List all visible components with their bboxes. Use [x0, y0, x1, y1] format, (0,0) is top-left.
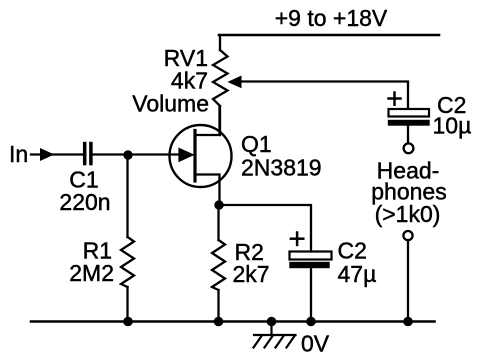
wire R2 to ground rail	[217, 290, 219, 322]
wire R1 to ground rail	[126, 287, 128, 322]
junction source node	[215, 201, 223, 209]
wire RV1 wiper to C2	[239, 82, 408, 109]
svg-text:2N3819: 2N3819	[241, 155, 322, 181]
svg-text:C2: C2	[338, 238, 367, 264]
svg-text:(>1k0): (>1k0)	[375, 201, 441, 227]
wire supply rail	[219, 34, 439, 37]
wire headphone to ground rail	[407, 241, 409, 322]
wire C2 47u to ground rail	[310, 267, 312, 322]
svg-text:2M2: 2M2	[69, 260, 114, 286]
svg-text:10µ: 10µ	[433, 113, 472, 139]
svg-text:Volume: Volume	[132, 91, 209, 117]
transistor Q1	[170, 107, 232, 205]
capacitor C2 10u	[389, 93, 430, 143]
junction headphone to rail	[404, 317, 413, 326]
capacitor C2 47u	[290, 233, 332, 268]
terminal headphone positive	[404, 143, 414, 153]
terminal headphone negative	[403, 231, 412, 240]
potentiometer RV1	[213, 50, 241, 135]
svg-text:Q1: Q1	[241, 131, 272, 157]
wire ground rail	[31, 320, 435, 323]
capacitor C1	[85, 142, 91, 166]
junction C2 47u to rail	[307, 317, 316, 326]
wire source node to R2	[217, 205, 219, 240]
resistor R1	[121, 237, 134, 287]
resistor R2	[212, 240, 225, 290]
svg-text:+9 to +18V: +9 to +18V	[275, 5, 388, 31]
arrow input signal	[41, 149, 54, 160]
junction R1 to rail	[124, 317, 133, 326]
wire input	[31, 153, 82, 155]
wire C1 to gate	[93, 153, 180, 155]
wire source node to C2 47u	[219, 205, 311, 252]
wire gate node to R1	[126, 155, 128, 237]
svg-text:47µ: 47µ	[338, 261, 377, 287]
svg-text:220n: 220n	[59, 189, 110, 215]
junction ground stub	[267, 317, 276, 326]
wire supply rail to RV1 top	[219, 35, 221, 50]
junction gate node	[124, 151, 132, 159]
ground symbol	[254, 322, 296, 348]
svg-text:0V: 0V	[301, 331, 330, 357]
junction R2 to rail	[214, 317, 223, 326]
svg-text:In: In	[9, 141, 28, 167]
svg-text:2k7: 2k7	[233, 261, 270, 287]
